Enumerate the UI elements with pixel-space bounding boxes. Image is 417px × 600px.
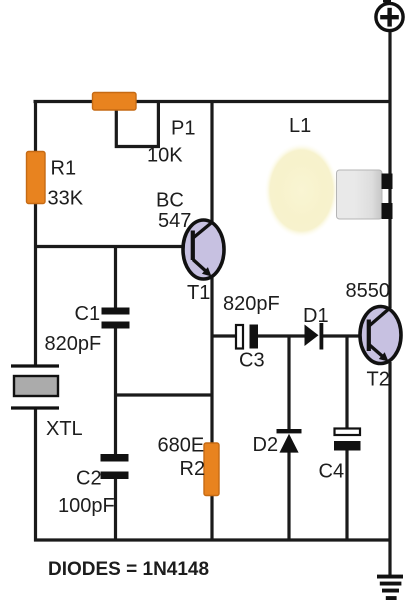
- svg-text:33K: 33K: [48, 188, 84, 210]
- potentiometer label P1 10K: [147, 118, 195, 167]
- capacitor label C2 100pF: [58, 468, 115, 518]
- svg-text:XTL: XTL: [46, 418, 83, 440]
- svg-text:BC: BC: [156, 190, 184, 212]
- ground: [377, 575, 403, 600]
- svg-text:C1: C1: [75, 303, 101, 325]
- transistor T2 8550: [360, 307, 401, 364]
- diode D1: [305, 323, 324, 350]
- capacitor C3: [236, 325, 258, 349]
- wire C4 branch: [345, 335, 348, 542]
- resistor label 680E R2: [158, 435, 206, 481]
- wire C1 C2 line: [114, 245, 117, 541]
- wire C1-C2 junction tap: [114, 393, 214, 396]
- svg-text:8550: 8550: [346, 280, 391, 302]
- wire left rail lower: [34, 408, 37, 542]
- svg-text:10K: 10K: [147, 145, 183, 167]
- capacitor label 820pF C3: [223, 293, 280, 372]
- svg-text:100pF: 100pF: [58, 495, 115, 517]
- svg-text:T2: T2: [367, 369, 390, 391]
- resistor R2: [204, 443, 219, 496]
- svg-text:L1: L1: [289, 115, 311, 137]
- capacitor C2: [101, 454, 129, 479]
- potentiometer P1: [93, 93, 137, 111]
- svg-text:C4: C4: [319, 461, 345, 483]
- svg-text:547: 547: [158, 210, 191, 232]
- wire right rail upper: [388, 30, 391, 308]
- wire middle C3 D1 to T2 base: [211, 334, 369, 337]
- transistor label BC 547: [156, 190, 191, 233]
- wire T1 emitter / R2 line: [210, 276, 213, 541]
- wire P1 wiper loop: [116, 100, 158, 147]
- wire bottom rail: [34, 538, 392, 541]
- svg-text:R1: R1: [51, 158, 77, 180]
- svg-text:C2: C2: [76, 468, 102, 490]
- resistor label R1 33K: [48, 158, 84, 210]
- wire top rail: [34, 100, 391, 103]
- svg-text:P1: P1: [171, 118, 195, 140]
- svg-text:820pF: 820pF: [45, 333, 102, 355]
- svg-text:680E: 680E: [158, 435, 205, 457]
- lamp L1 base: [337, 170, 383, 219]
- capacitor label C1 820pF: [45, 303, 102, 355]
- svg-text:DIODES = 1N4148: DIODES = 1N4148: [48, 559, 209, 580]
- wire T1 base: [34, 245, 192, 248]
- svg-text:C3: C3: [239, 350, 265, 372]
- wire right rail lower: [388, 362, 391, 576]
- crystal XTL: [11, 366, 59, 408]
- lamp L1 bulb glow: [265, 143, 339, 238]
- diode D2: [277, 429, 302, 453]
- capacitor C4: [334, 429, 361, 451]
- wire T1 collector to top rail: [210, 100, 213, 222]
- wire D2 branch: [287, 335, 290, 542]
- svg-text:D2: D2: [253, 434, 279, 456]
- resistor R1: [27, 152, 46, 204]
- capacitor C1: [102, 308, 130, 329]
- lamp L1 contact tab upper: [382, 174, 393, 190]
- svg-text:T1: T1: [187, 282, 210, 304]
- wire left rail upper: [34, 100, 37, 366]
- svg-text:D1: D1: [303, 305, 329, 327]
- transistor T1 BC547: [183, 220, 224, 279]
- lamp L1 contact tab lower: [382, 203, 393, 219]
- battery positive terminal: [376, 0, 403, 31]
- svg-text:820pF: 820pF: [223, 293, 280, 315]
- svg-text:R2: R2: [180, 458, 206, 480]
